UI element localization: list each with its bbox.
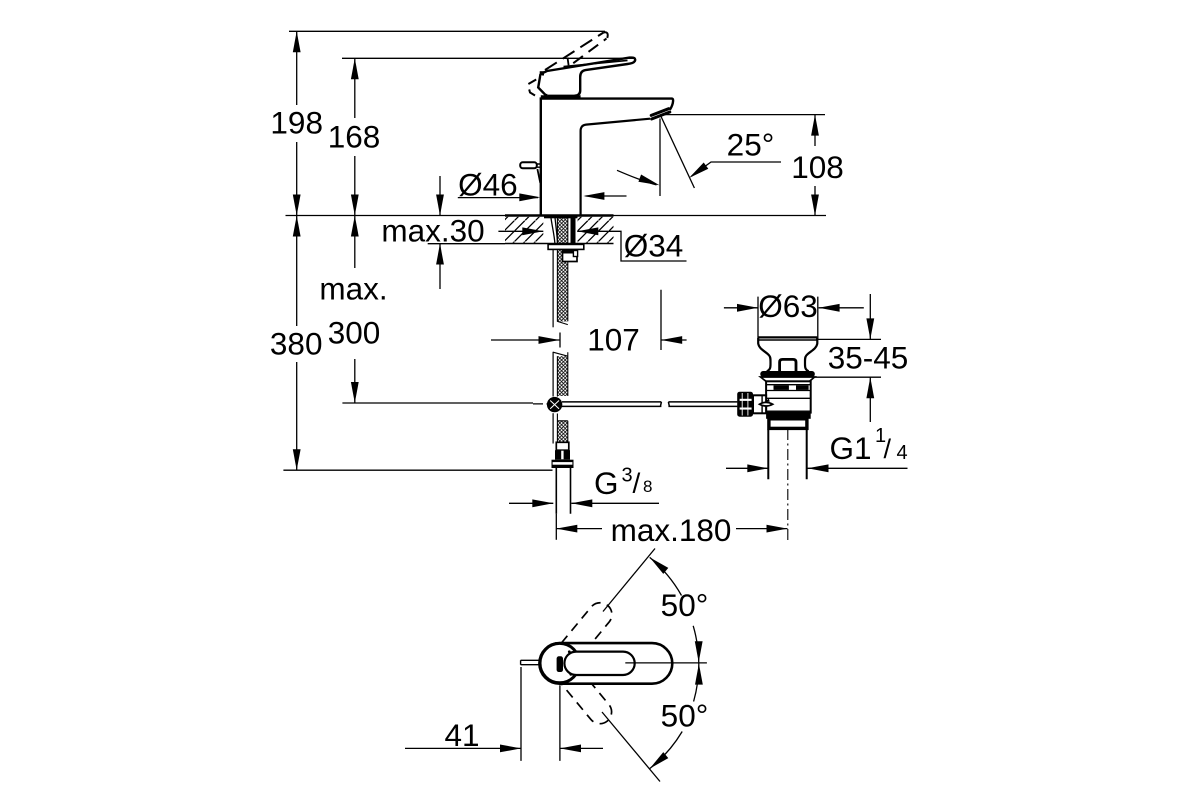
body horizontal lines bbox=[766, 385, 811, 412]
25 deg: curved flow arrow bbox=[617, 170, 657, 185]
spout underside bbox=[581, 119, 650, 216]
handle inner stadium bbox=[564, 652, 634, 675]
dim O63 arrows bbox=[724, 307, 864, 309]
hose end nut black with white band bbox=[552, 460, 574, 468]
braided hose segment 3 bbox=[552, 413, 554, 443]
aerator slanted bar lower stroke bbox=[652, 112, 670, 119]
faucet body and spout outline bbox=[541, 99, 673, 216]
dashed handle lifted: base quad bbox=[528, 80, 537, 97]
svg-text:G1: G1 bbox=[830, 430, 872, 466]
arc arrowheads at centerline bbox=[695, 641, 703, 662]
svg-text:8: 8 bbox=[643, 477, 652, 496]
svg-text:380: 380 bbox=[270, 326, 323, 362]
50deg upper diagonal bbox=[603, 549, 655, 612]
25 deg: slanted stream line bbox=[661, 116, 695, 188]
svg-text:35-45: 35-45 bbox=[828, 340, 909, 376]
ext line spout outlet level bbox=[661, 114, 825, 116]
dashed handle lifted: tip curl bbox=[604, 32, 608, 39]
svg-text:max.: max. bbox=[319, 271, 387, 307]
hose curve through counter hole bbox=[551, 217, 558, 244]
dashed handle pivot line bbox=[568, 58, 573, 92]
svg-text:4: 4 bbox=[897, 442, 908, 464]
pop-up rod left segment bbox=[562, 402, 661, 407]
svg-text:41: 41 bbox=[444, 717, 479, 753]
dashed handle lifted: lower blade line bbox=[558, 39, 607, 75]
faucet body circle bbox=[540, 643, 579, 682]
thick walled tailpipe top bbox=[769, 419, 807, 429]
svg-text:Ø63: Ø63 bbox=[758, 288, 818, 324]
dashed handle swung up 50deg bbox=[554, 598, 617, 667]
svg-text:50°: 50° bbox=[661, 587, 709, 623]
handle corner black square bbox=[540, 71, 544, 75]
screw dots bbox=[568, 650, 571, 653]
dim 168 line bbox=[354, 58, 356, 215]
dim G3/8 arrows bbox=[509, 502, 659, 504]
pipe edge extension for max180 bbox=[555, 514, 557, 540]
dim O63 ext lines bbox=[758, 297, 818, 339]
countertop hatch right bbox=[577, 217, 613, 243]
ball joint of pop-up rod bbox=[547, 397, 562, 412]
black bar in counter hole bbox=[571, 217, 576, 244]
svg-text:G: G bbox=[594, 465, 619, 501]
body bottom black band bbox=[766, 413, 811, 419]
mounting washer bbox=[548, 244, 584, 249]
dim 41 arrows bbox=[405, 747, 603, 749]
50deg arc middle segment bbox=[693, 626, 698, 702]
25 deg: leader and arrowhead bbox=[692, 162, 782, 176]
svg-text:/: / bbox=[633, 468, 641, 499]
svg-text:Ø46: Ø46 bbox=[458, 167, 518, 203]
handle outer stadium bbox=[539, 643, 672, 684]
handle lever blade bbox=[541, 58, 636, 96]
dim max.30 vertical arrows bbox=[439, 176, 441, 289]
svg-text:107: 107 bbox=[587, 322, 640, 358]
body overflow slots black bbox=[774, 385, 789, 390]
dashed handle swung down 50deg bbox=[554, 659, 617, 728]
pop-up collar black band bbox=[760, 371, 815, 377]
svg-text:/: / bbox=[884, 434, 892, 464]
tailpipe dashed centerline bbox=[787, 429, 789, 541]
dim max.180 bbox=[556, 528, 787, 530]
G_SIDE_VIEW bbox=[505, 32, 737, 513]
rod stub left bbox=[521, 660, 541, 664]
threaded shank / braided hose segment 1 bbox=[557, 217, 567, 322]
tailpipe bbox=[768, 430, 806, 480]
G_DIMENSIONS bbox=[270, 31, 908, 548]
G_POPUP_WASTE bbox=[737, 337, 817, 540]
25 deg: vertical ref line from spout tip bbox=[659, 119, 661, 197]
hose end crimp collar bbox=[556, 442, 569, 450]
pop-up waste flange cylinder top bbox=[758, 336, 817, 338]
countertop top line bbox=[505, 214, 614, 216]
50deg arc lower segment bbox=[650, 732, 683, 769]
svg-text:198: 198 bbox=[270, 105, 323, 141]
rod connector box bbox=[753, 395, 766, 413]
ext line hose end level bbox=[283, 469, 552, 471]
center mark black bbox=[557, 656, 563, 672]
braided hose segment 2 bbox=[552, 352, 554, 397]
pop-up lifter knob behind faucet bbox=[520, 162, 537, 168]
dim 380 line bbox=[296, 216, 298, 471]
svg-text:108: 108 bbox=[791, 149, 844, 185]
dim 198 line bbox=[296, 31, 298, 215]
pop-up plug knob bbox=[780, 359, 796, 372]
ext line counter level left bbox=[286, 215, 506, 217]
faucet base gasket black bar bbox=[544, 215, 578, 219]
pop-up valve body bbox=[766, 381, 811, 412]
handle blade inner line bbox=[564, 60, 628, 66]
dim O34 arrows bbox=[498, 231, 686, 261]
centerline right bbox=[625, 662, 707, 664]
aerator slanted bar upper stroke bbox=[651, 109, 669, 116]
svg-text:max.180: max.180 bbox=[611, 512, 732, 548]
countertop hatch left bbox=[505, 217, 543, 243]
dashed handle lifted: upper blade line bbox=[545, 33, 604, 71]
ext line counter level right bbox=[614, 215, 827, 217]
pop-up skirt trapezoid bbox=[761, 377, 815, 381]
arc arrowhead lower bbox=[650, 752, 669, 769]
50deg arc upper segment bbox=[650, 557, 682, 595]
mounting nut bbox=[563, 251, 578, 262]
dim O46 leader and arrows bbox=[458, 197, 538, 199]
ext line rod level bbox=[342, 402, 533, 404]
svg-text:168: 168 bbox=[328, 119, 381, 155]
svg-text:25°: 25° bbox=[727, 127, 775, 163]
dim 35-45 arrows bbox=[869, 294, 871, 422]
pop-up lifter knob neck bbox=[537, 164, 541, 167]
rod end lens pointer bbox=[760, 402, 773, 406]
svg-text:3: 3 bbox=[622, 464, 633, 486]
svg-text:300: 300 bbox=[328, 315, 381, 351]
arc arrowhead upper bbox=[650, 557, 669, 574]
pop-up lifter diagonal strut bbox=[537, 169, 540, 183]
dim 108 bbox=[814, 115, 816, 216]
dim max300 line bbox=[354, 216, 356, 404]
countertop bottom line bbox=[505, 243, 614, 245]
dim G1 1/4 arrows bbox=[726, 467, 908, 469]
hose tube left edge upper bbox=[552, 250, 554, 328]
rod centerline dash-dot left of ball bbox=[533, 403, 548, 405]
50deg lower diagonal bbox=[602, 712, 660, 782]
ext line lever tip level bbox=[342, 57, 635, 59]
dim 41 ext lines bbox=[521, 667, 560, 761]
pop-up flange trumpet sides bbox=[758, 338, 770, 371]
knurled rod nut bbox=[737, 392, 753, 417]
ext line handle top level bbox=[289, 30, 605, 32]
handle base (cartridge cap) bbox=[538, 74, 564, 96]
svg-text:50°: 50° bbox=[661, 698, 709, 734]
dim 107 bbox=[491, 290, 687, 350]
svg-text:Ø34: Ø34 bbox=[624, 227, 684, 263]
hose break slant cut 1 bbox=[557, 321, 567, 324]
G_TOP_VIEW bbox=[405, 549, 708, 782]
G3/8 threaded pipe end bbox=[556, 468, 570, 514]
pop-up rod right segment bbox=[668, 402, 737, 407]
handle/body gap thick line bbox=[541, 95, 581, 98]
dim 35-45 ext lines bbox=[814, 339, 881, 377]
hose end ferrule black bbox=[555, 450, 570, 460]
